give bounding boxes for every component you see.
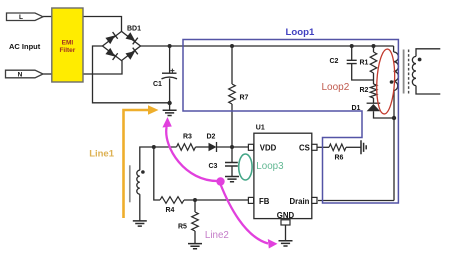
svg-text:FB: FB <box>259 197 270 206</box>
svg-text:GND: GND <box>277 211 295 220</box>
svg-text:Loop1: Loop1 <box>286 27 315 38</box>
svg-text:D2: D2 <box>207 134 216 141</box>
svg-text:R6: R6 <box>335 155 344 162</box>
svg-text:Loop2: Loop2 <box>322 82 350 93</box>
svg-text:Drain: Drain <box>290 197 310 206</box>
svg-text:Line2: Line2 <box>205 230 229 241</box>
svg-text:Loop3: Loop3 <box>256 161 284 172</box>
svg-text:EMI: EMI <box>62 40 74 47</box>
svg-text:C2: C2 <box>330 58 339 65</box>
svg-text:R4: R4 <box>166 207 175 214</box>
svg-text:R2: R2 <box>360 87 369 94</box>
svg-text:C1: C1 <box>153 81 162 88</box>
svg-text:AC Input: AC Input <box>9 42 41 51</box>
svg-text:R7: R7 <box>240 95 249 102</box>
svg-text:CS: CS <box>299 144 310 153</box>
svg-text:Line1: Line1 <box>89 148 115 159</box>
svg-text:N: N <box>18 72 23 79</box>
svg-text:BD1: BD1 <box>127 26 141 33</box>
svg-text:R1: R1 <box>360 60 369 67</box>
svg-text:VDD: VDD <box>260 144 277 153</box>
svg-text:C3: C3 <box>209 163 218 170</box>
svg-text:L: L <box>19 14 23 21</box>
svg-text:R3: R3 <box>183 134 192 141</box>
svg-text:U1: U1 <box>256 125 265 132</box>
svg-text:R5: R5 <box>178 224 187 231</box>
svg-text:Filter: Filter <box>59 47 75 54</box>
svg-text:D1: D1 <box>352 105 361 112</box>
